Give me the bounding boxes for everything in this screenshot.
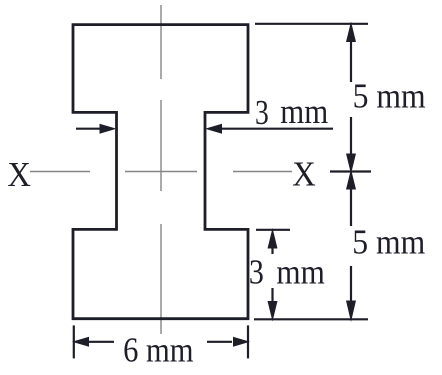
horizontal centerline X-X bbox=[30, 171, 292, 173]
svg-text:3: 3 bbox=[249, 253, 264, 292]
dimension 6 mm: right tick bbox=[247, 325, 249, 358]
dimension 5 mm top: dimension line segments bbox=[350, 40, 352, 155]
dimension 5 mm bottom: extension line at bottom bbox=[254, 318, 368, 320]
vertical centerline bbox=[160, 5, 162, 334]
dimension 3 mm flange: top tick bbox=[256, 229, 290, 231]
dimension 3 mm web: left arrowhead bbox=[100, 124, 117, 134]
dimension 3 mm flange: arrowhead down bbox=[268, 301, 278, 322]
dimension 3 mm flange: arrowhead up bbox=[268, 228, 278, 249]
dimension 6 mm: left tick bbox=[73, 325, 75, 358]
dimension 3 mm web: right arrowhead bbox=[205, 124, 222, 134]
dimension 6 mm: left arrow line bbox=[89, 341, 114, 343]
svg-text:5 mm: 5 mm bbox=[352, 223, 425, 262]
dimension 5 mm bottom: arrowhead down bbox=[346, 301, 356, 323]
dimension 5 mm top: extension line at top bbox=[255, 23, 368, 25]
dimension 5 mm top: arrowhead up bbox=[346, 22, 356, 43]
svg-text:mm: mm bbox=[280, 92, 328, 131]
svg-text:6 mm: 6 mm bbox=[123, 330, 194, 369]
dimension 5 mm top: arrowhead down bbox=[346, 154, 356, 175]
dimension 5 mm bottom: arrowhead up bbox=[346, 169, 356, 190]
dimension 6 mm: right arrowhead bbox=[233, 337, 250, 347]
dimension 5 mm bottom: dimension line segments bbox=[350, 188, 352, 301]
dimension 3 mm flange: dimension line segments bbox=[271, 246, 273, 302]
dimension 6 mm: right arrow line bbox=[207, 341, 232, 343]
svg-text:X: X bbox=[292, 154, 316, 193]
tick on X axis for dimension bbox=[330, 170, 371, 172]
dimension 3 mm web: left arrow line bbox=[76, 128, 101, 130]
dimension 6 mm: left arrowhead bbox=[72, 337, 89, 347]
dimension 3 mm web: right leader line bbox=[220, 128, 333, 130]
svg-text:3: 3 bbox=[255, 93, 269, 132]
svg-text:5 mm: 5 mm bbox=[353, 77, 426, 116]
svg-text:mm: mm bbox=[276, 253, 325, 292]
svg-text:X: X bbox=[7, 155, 31, 194]
I-beam outline bbox=[73, 25, 248, 319]
